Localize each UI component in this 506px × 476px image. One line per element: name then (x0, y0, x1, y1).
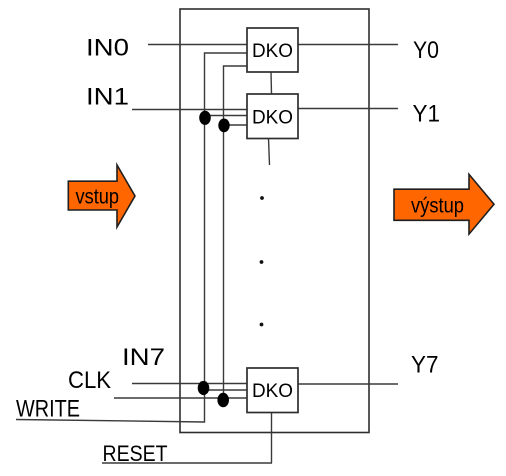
junction dot CLK/DKO3 (217, 393, 229, 407)
svg-text:DKO: DKO (252, 380, 293, 402)
svg-text:Y1: Y1 (413, 101, 441, 128)
junction dot CLK/DKO2 (218, 119, 229, 133)
svg-text:CLK: CLK (68, 367, 111, 394)
wire IN1 (132, 109, 247, 111)
flip-flop U3 DKO (247, 368, 298, 413)
flip-flop U1 DKO (247, 28, 298, 72)
wire branch to DKO2 pin2 (205, 115, 248, 117)
svg-text:výstup: výstup (411, 195, 464, 218)
svg-text:Y7: Y7 (411, 352, 439, 379)
wire RESET vertical from DKO3 (271, 413, 273, 464)
wire CLK (114, 397, 247, 399)
ellipsis dot 3 (260, 323, 264, 327)
svg-text:DKO: DKO (252, 107, 293, 129)
arrow vystup (394, 174, 494, 234)
outer register block (180, 9, 369, 433)
wire IN7 (132, 383, 247, 385)
wire IN0 (148, 44, 247, 46)
junction dot WRITE/DKO3 (198, 381, 210, 395)
svg-text:IN1: IN1 (86, 84, 129, 111)
svg-text:DKO: DKO (252, 40, 293, 62)
svg-text:IN0: IN0 (86, 35, 129, 62)
wire Y1 (298, 108, 398, 110)
wire RESET (102, 462, 272, 464)
wire branch to DKO2 pin3 (224, 124, 248, 126)
svg-text:Y0: Y0 (413, 37, 439, 64)
wire DKO2 reset stub (269, 139, 270, 166)
svg-text:IN7: IN7 (122, 344, 165, 371)
junction dot WRITE/DKO2 (199, 111, 211, 125)
wire Y7 (298, 383, 398, 385)
svg-text:RESET: RESET (103, 441, 168, 466)
ellipsis dot 1 (260, 196, 264, 200)
ellipsis dot 2 (260, 260, 264, 264)
wire CLK bus vertical (224, 66, 248, 400)
flip-flop U2 DKO (247, 94, 298, 139)
svg-text:WRITE: WRITE (16, 396, 80, 423)
wire DKO1 to DKO2 reset link (270, 72, 273, 94)
svg-text:vstup: vstup (76, 186, 120, 209)
wire WRITE bus vertical (16, 53, 247, 422)
arrow vstup (68, 165, 135, 227)
wire branch to DKO3 pin2 (205, 389, 248, 391)
wire Y0 (298, 44, 398, 46)
